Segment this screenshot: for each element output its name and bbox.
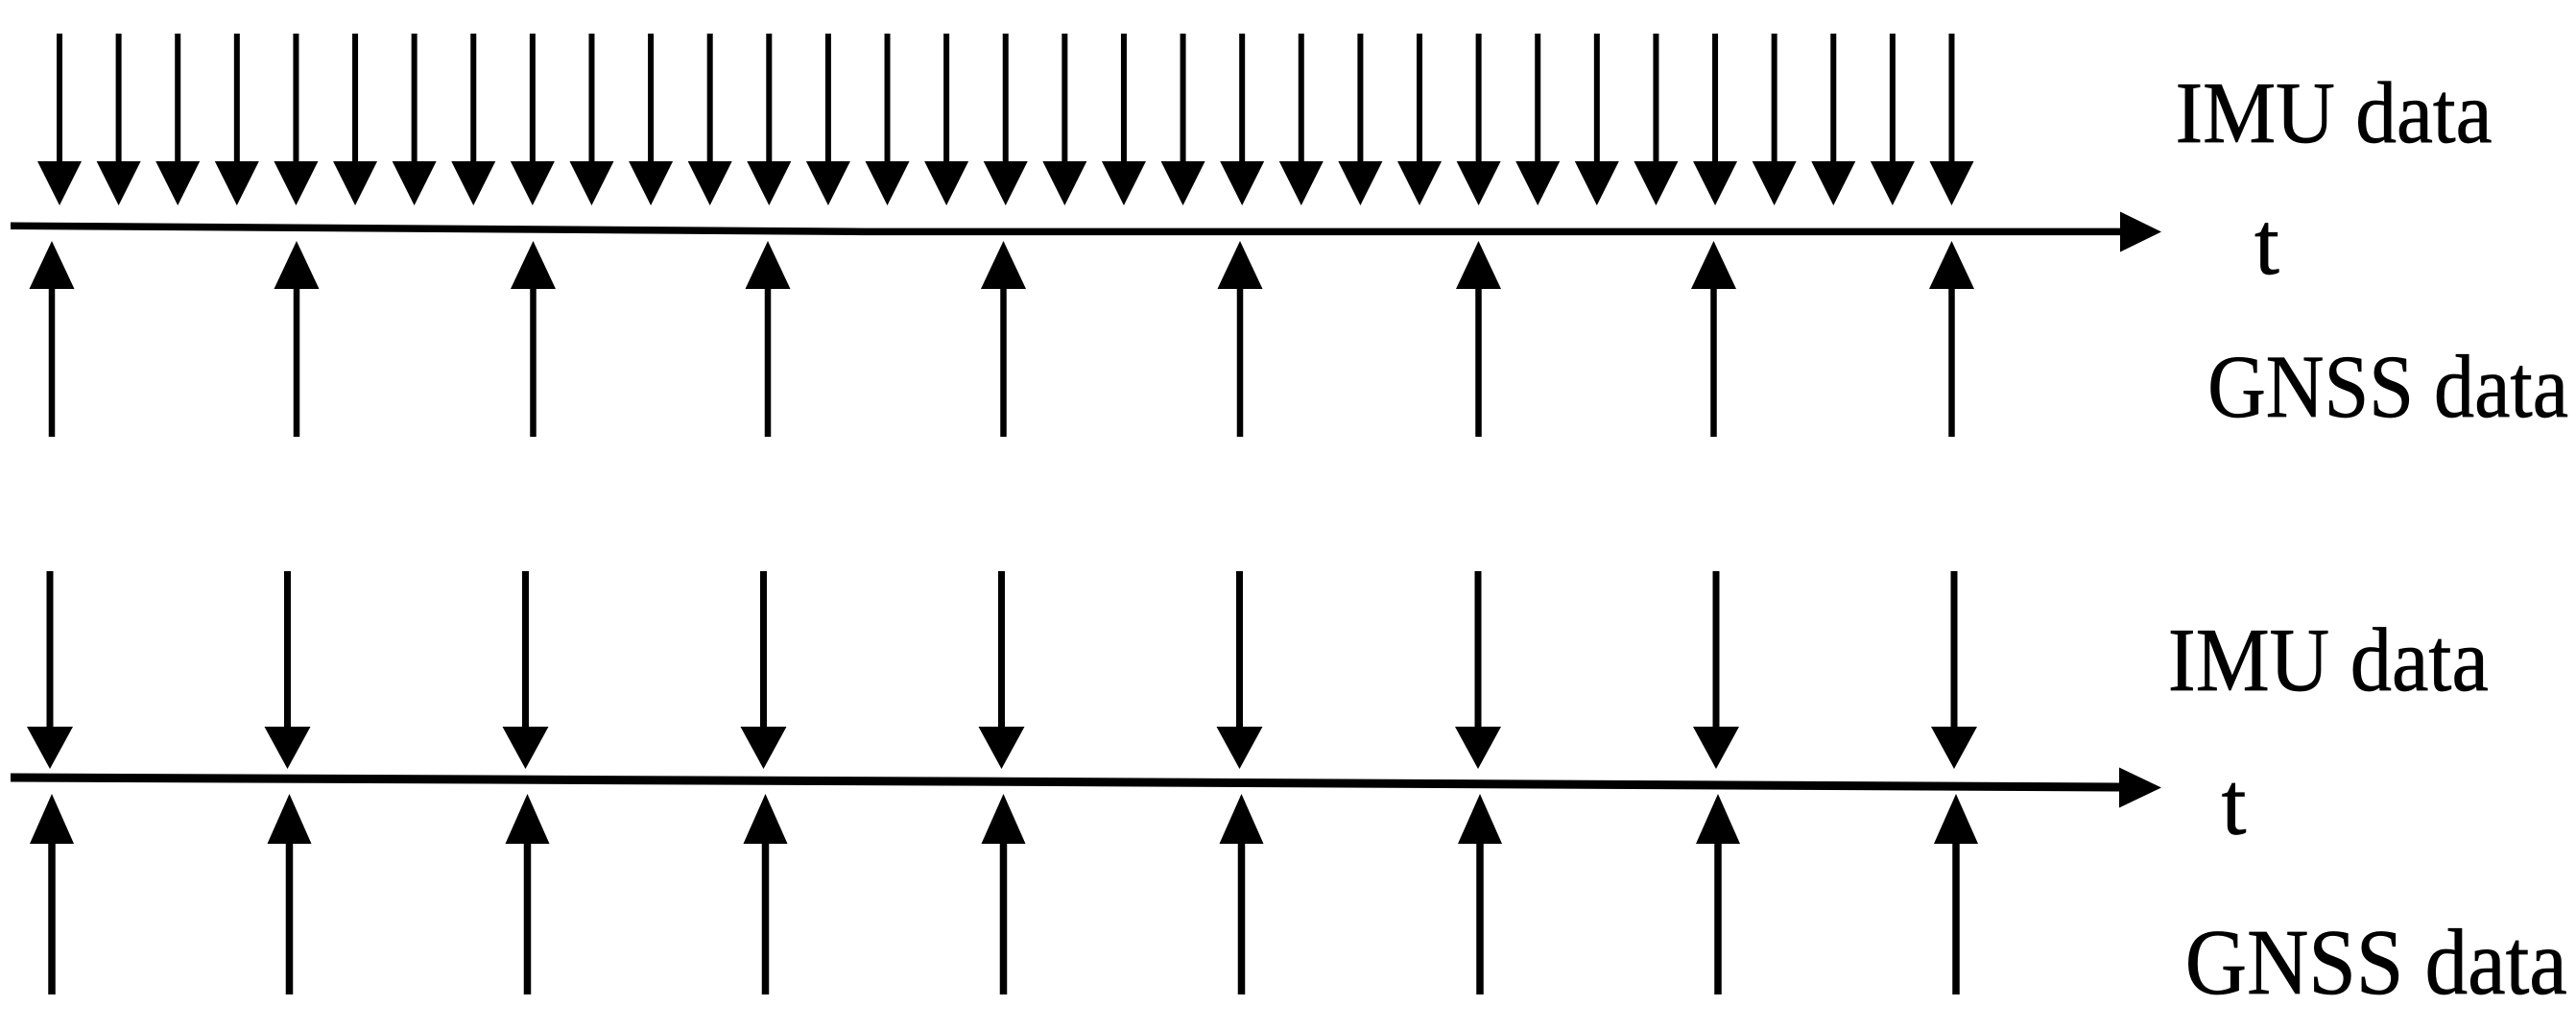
svg-text:GNSS data: GNSS data [2185,911,2567,1015]
svg-text:IMU data: IMU data [2176,63,2493,161]
svg-text:IMU data: IMU data [2168,611,2489,710]
svg-text:GNSS data: GNSS data [2207,338,2568,437]
svg-text:t: t [2222,755,2247,854]
svg-text:t: t [2254,195,2279,294]
